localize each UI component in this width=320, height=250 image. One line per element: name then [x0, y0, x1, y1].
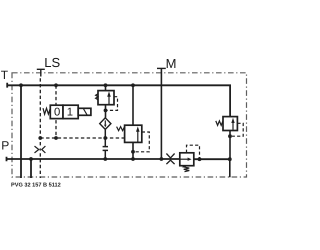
relief valve RV2 arrow — [136, 126, 140, 142]
solenoid valve V1 box 1 — [63, 105, 78, 118]
relief valve RV1 arrow — [107, 91, 111, 104]
digit 0 — [54, 107, 60, 119]
relief valve RV3 spring — [216, 121, 223, 126]
LS plug X — [35, 146, 46, 153]
digit 1 — [67, 107, 73, 119]
LS horizontal dashed line — [40, 137, 124, 139]
relief valve RV3 pilot dashed — [232, 123, 243, 136]
relief valve RV3 body — [223, 117, 237, 131]
orifice diamond — [100, 118, 111, 130]
enclosure dash-dot border — [12, 73, 247, 177]
relief valve RV2 supply line — [132, 85, 134, 159]
M port stub — [157, 67, 166, 69]
junction dots — [19, 83, 232, 161]
svg-text:P: P — [1, 139, 9, 153]
relief valve RV4 body — [180, 153, 194, 166]
relief valve RV1 supply line — [105, 85, 107, 118]
relief valve RV2 body — [125, 125, 142, 142]
orifice to P line with break bars — [103, 129, 108, 159]
solenoid valve V1 actuator — [78, 108, 91, 115]
port label T — [1, 68, 9, 82]
relief valve RV3 outlet line — [229, 131, 231, 178]
type code text — [11, 182, 61, 188]
relief valve RV4 arrow — [180, 158, 191, 161]
M line — [160, 68, 162, 159]
relief valve RV1 spring — [96, 94, 98, 100]
svg-text:1: 1 — [67, 107, 73, 119]
relief valve RV1 pilot dashed — [107, 97, 118, 111]
solenoid valve V1 box 0 — [50, 105, 63, 118]
port label M — [166, 56, 177, 71]
svg-text:M: M — [166, 56, 177, 71]
solenoid valve V1 spring — [43, 108, 50, 114]
port label P — [1, 139, 9, 153]
relief valve RV4 pilot dashed — [187, 145, 200, 158]
relief valve RV3 arrow — [231, 118, 234, 130]
svg-text:0: 0 — [54, 107, 60, 119]
LS port stub — [37, 69, 45, 76]
orifice arrow — [104, 120, 107, 127]
svg-text:T: T — [1, 68, 9, 82]
relief valve RV2 pilot dashed — [135, 132, 149, 152]
relief valve RV2 spring — [117, 127, 125, 131]
T line — [7, 83, 230, 117]
P line — [7, 157, 230, 162]
P stub down — [30, 159, 32, 178]
svg-text:PVG 32 157 B 5112: PVG 32 157 B 5112 — [11, 182, 61, 188]
pilot dashed line from T to valve — [55, 85, 57, 138]
LS dashed line — [39, 77, 41, 147]
relief valve RV4 spring — [184, 166, 190, 172]
relief valve RV1 body — [98, 91, 114, 105]
svg-text:LS: LS — [44, 55, 60, 70]
port label LS — [44, 55, 60, 70]
plug X on P line — [166, 154, 174, 165]
T stub down — [20, 85, 22, 178]
